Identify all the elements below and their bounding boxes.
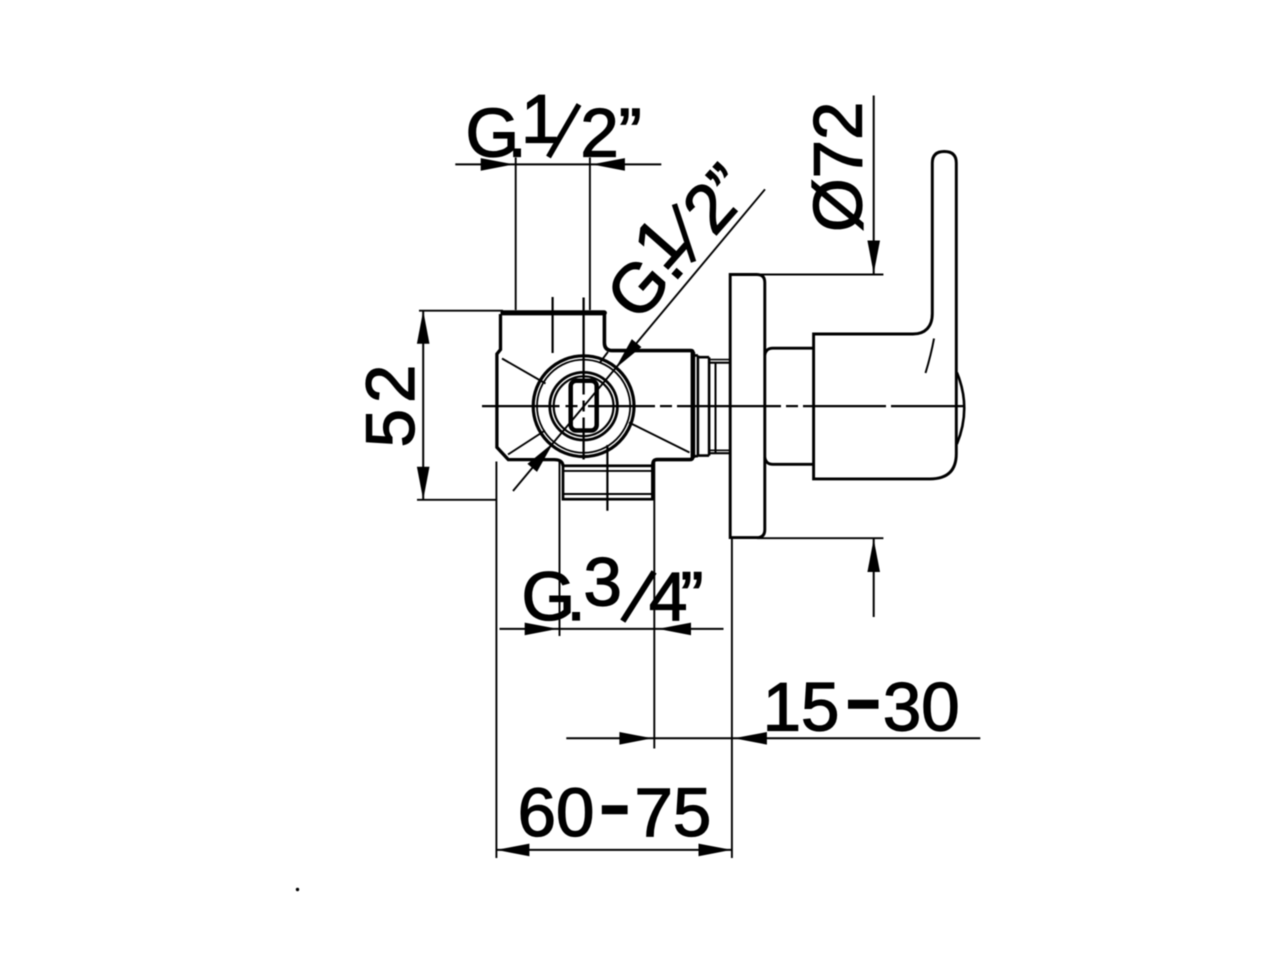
label G.3/4": big slash — [623, 572, 654, 621]
svg-text:75: 75 — [635, 774, 712, 851]
leader line G.1/2" diagonal — [513, 189, 765, 491]
dimension Ø72: lower dimension line — [873, 539, 875, 617]
bottom port: inner end line — [563, 493, 652, 495]
dimension G.3/4": right arrow — [658, 623, 691, 636]
dimension Ø72: lower arrow — [867, 539, 880, 572]
dimension Ø72: top extension line — [757, 274, 883, 276]
svg-text:15: 15 — [763, 669, 840, 746]
right outlet: thread end chamfer — [715, 363, 717, 454]
leader diagonal: upper arrow — [616, 339, 642, 368]
dimension 15-30: dimension line — [566, 737, 980, 739]
valve body: left outline (port left edge, body left edge, chamfer, bottom edge) — [497, 314, 563, 466]
right outlet: groove ring — [698, 357, 709, 455]
escutcheon sleeve top edge — [765, 348, 814, 355]
svg-text:60: 60 — [518, 774, 595, 851]
dimension G.1/2" top: extension line left — [515, 158, 517, 311]
label G.1/2" top: big slash — [549, 105, 580, 158]
dimension Ø72: upper arrow — [867, 241, 880, 274]
dimension 15-30: right arrow — [734, 732, 767, 745]
cartridge inner circle — [550, 372, 618, 440]
cartridge outer circle — [533, 356, 634, 457]
valve body: top port thick face — [503, 310, 604, 315]
right outlet: thread root top — [709, 362, 729, 364]
svg-text:3: 3 — [584, 544, 622, 621]
chamfer diagonal bottom-right — [629, 423, 690, 453]
centerline horizontal (main axis) — [482, 405, 964, 407]
label G.1/2" diagonal — [581, 141, 766, 333]
escutcheon sleeve bottom edge — [765, 458, 814, 465]
stray dot bottom left — [296, 888, 299, 891]
dimension 52: top arrow — [417, 311, 430, 344]
chamfer diagonal top-right — [600, 352, 608, 363]
dimension 60-75: right arrow — [699, 844, 732, 857]
dimension G.3/4": right extension line (shared with 15-30) — [653, 462, 655, 749]
dimension 60-75: left arrow — [496, 844, 529, 857]
dimension G.1/2" top: extension line right — [589, 158, 591, 311]
centerline top port — [551, 297, 553, 353]
dimension 52: dimension line — [422, 311, 424, 500]
dimension 52: top extension line — [419, 310, 503, 312]
svg-text:Ø72: Ø72 — [800, 102, 877, 232]
centerline vertical (circle axis) — [582, 298, 584, 460]
valve stem slot (rounded rect) — [571, 381, 597, 431]
right outlet: thread crest bottom — [709, 449, 729, 451]
dimension Ø72: bottom extension line — [757, 537, 883, 539]
dimension 60-75: dimension line — [496, 849, 732, 851]
dimension G.1/2" top: right arrow — [592, 158, 625, 171]
svg-text:2”: 2” — [580, 94, 641, 171]
chamfer diagonal top-left — [502, 359, 546, 384]
right outlet: thread root bottom — [709, 452, 729, 454]
dimension G.3/4": left arrow — [525, 623, 558, 636]
leader diagonal: lower arrow — [527, 443, 553, 472]
svg-text:”: ” — [681, 558, 704, 635]
cartridge inner ring 2 — [554, 376, 614, 436]
centerline bottom port — [606, 445, 608, 511]
valve body: right outline (port right edge, top edge, right edge, bottom edge) — [604, 314, 693, 466]
dimension 52: bottom arrow — [417, 467, 430, 500]
dimension G.1/2" top: left arrow — [481, 158, 514, 171]
svg-text:30: 30 — [883, 669, 960, 746]
dimension G.3/4": left extension line — [559, 461, 561, 636]
svg-text:52: 52 — [352, 359, 429, 448]
valve body: right edge (thick) — [691, 352, 696, 458]
dimension 52: bottom extension line — [417, 499, 496, 501]
dimension G.3/4": dimension line — [500, 628, 724, 630]
dimension 15-30: left arrow — [619, 732, 652, 745]
right outlet: first collar — [693, 355, 698, 456]
wall flange plate — [730, 275, 765, 538]
right outlet: thread crest top — [709, 359, 729, 361]
dimension Ø72: upper dimension line — [873, 96, 875, 274]
handle dome bulge arc — [957, 373, 964, 445]
handle body and lever outline — [814, 152, 957, 479]
dimension 15-30 / 60-75: shared right extension line (from flange) — [731, 539, 733, 859]
bottom port: inner shoulder line — [563, 470, 652, 472]
dimension G.1/2" top: dimension line — [455, 163, 661, 165]
chamfer diagonal bottom-left — [508, 431, 545, 455]
handle highlight slash — [926, 339, 935, 374]
dimension 60-75: left extension line — [495, 462, 497, 859]
cartridge outer ring (inner of double line) — [537, 360, 630, 453]
valve body: bottom port outline — [563, 466, 652, 499]
